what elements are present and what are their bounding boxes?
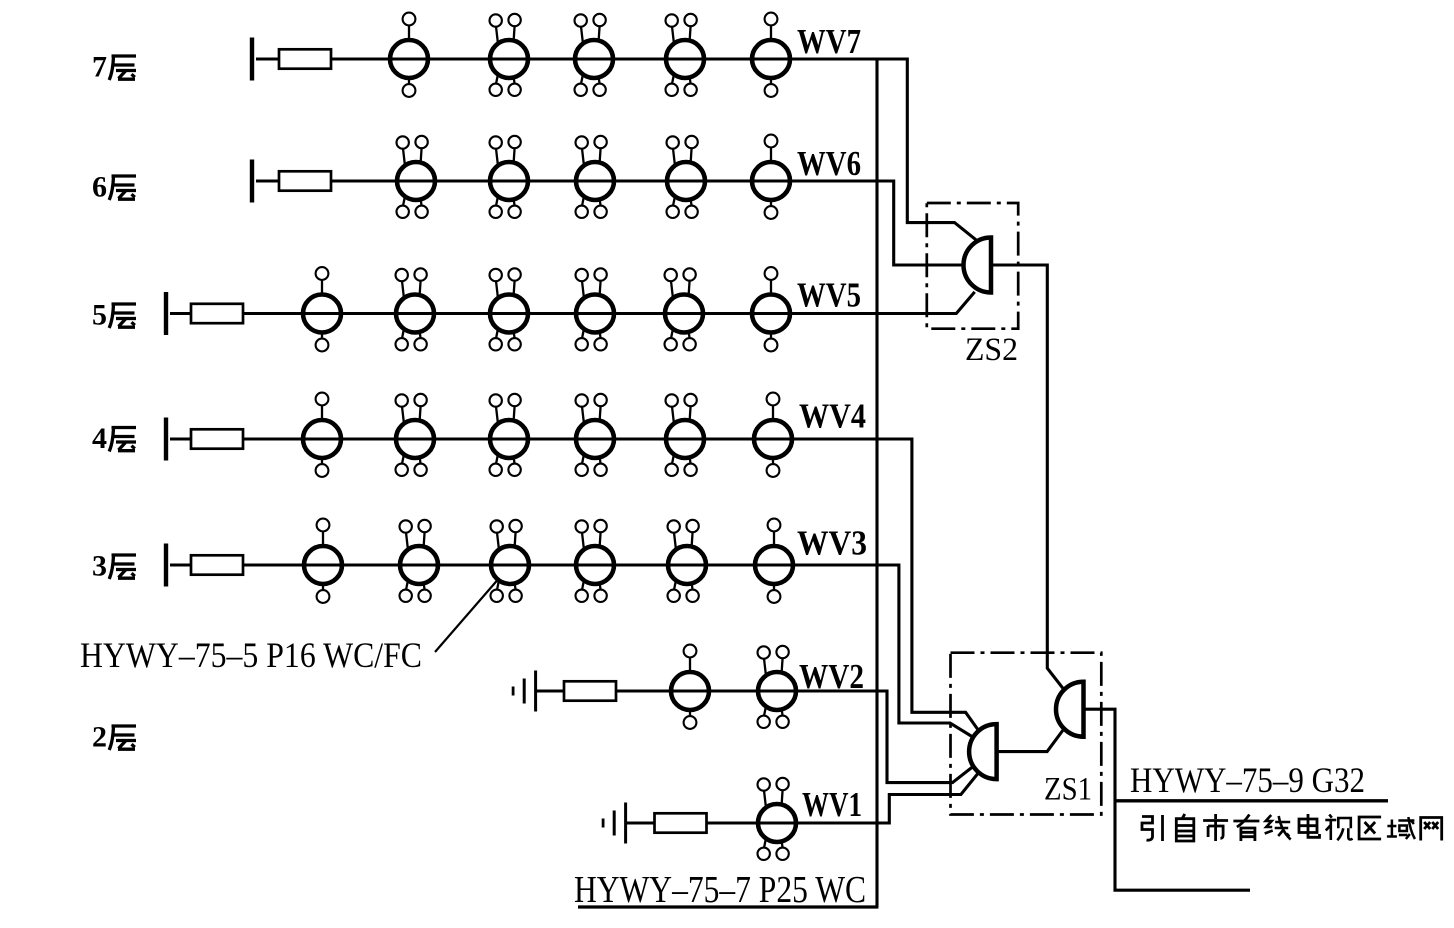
label incoming network note [1142, 814, 1442, 841]
tap WV6-3 [576, 136, 615, 218]
tap WV3-1 [304, 519, 342, 603]
wire F5 terminator to resistor [170, 312, 191, 315]
label floor 2 ceng [109, 726, 136, 750]
tap WV7-4 [666, 14, 705, 96]
splitter ZS2 [963, 238, 991, 293]
wire F6 line WV6 to ZS2 [330, 181, 963, 265]
tap WV3-5 [668, 520, 707, 602]
splitter box ZS1 [951, 653, 1102, 815]
tap WV6-1 [397, 136, 436, 218]
tap WV6-5 [752, 135, 790, 219]
splitter ZS1 left [969, 724, 997, 779]
tap WV3-2 [400, 520, 439, 602]
wire F6 terminator to resistor [256, 179, 279, 182]
tap WV7-2 [490, 14, 529, 96]
svg-text:WV1: WV1 [802, 785, 862, 824]
svg-text:WV6: WV6 [797, 144, 861, 183]
tap WV4-1 [303, 393, 341, 477]
svg-text:HYWY–75–9 G32: HYWY–75–9 G32 [1130, 760, 1365, 800]
svg-text:5: 5 [92, 299, 107, 332]
tap WV5-6 [752, 267, 790, 351]
wire feeder label line HYWY-75-9 G32 [1115, 799, 1388, 802]
label floor 6 ceng [109, 176, 136, 200]
tap WV7-3 [575, 14, 614, 96]
wire ZS1 splitter link [997, 729, 1065, 752]
svg-text:7: 7 [92, 51, 107, 84]
svg-text:WV4: WV4 [799, 397, 866, 436]
svg-text:6: 6 [92, 171, 107, 204]
label floor 7 ceng [109, 56, 136, 80]
terminator F6 [250, 160, 254, 203]
tap WV4-4 [576, 394, 615, 476]
wire F7 terminator to resistor [256, 57, 279, 60]
terminator F7 [250, 38, 254, 81]
load resistor F7 [279, 49, 331, 68]
wire riser trunk HYWY-75-7 [875, 59, 878, 907]
wire F4 line WV4 to ZS1 [242, 439, 980, 733]
leader line HYWY-75-5 to tap [435, 580, 498, 652]
tap WV1-1 [758, 778, 797, 860]
splitter box ZS2 [927, 203, 1018, 329]
wire F3 line WV3 to ZS1 [242, 565, 975, 739]
tap WV5-3 [490, 268, 529, 350]
wire ZS1 input feeder from network [1084, 709, 1251, 890]
wire F4 terminator to resistor [170, 437, 191, 440]
load resistor F3 [191, 555, 243, 574]
tap WV2-2 [758, 646, 797, 728]
svg-text:2: 2 [92, 721, 107, 754]
wire WV2 ground to resistor [536, 689, 564, 692]
splitter ZS1 right [1056, 682, 1084, 737]
label floor 5 ceng [109, 304, 136, 328]
svg-text:WV7: WV7 [797, 22, 861, 61]
wire riser label underline HYWY-75-7 [578, 905, 878, 908]
wire WV1 line to ZS1 [705, 772, 980, 824]
label floor 4 ceng [109, 428, 136, 452]
ground WV2 [512, 671, 537, 712]
wire F5 line WV5 to ZS2 [242, 292, 975, 314]
load resistor F5 [191, 304, 243, 323]
tap WV4-5 [666, 394, 705, 476]
tap WV7-1 [390, 13, 428, 97]
svg-text:3: 3 [92, 550, 107, 583]
tap WV6-4 [667, 136, 706, 218]
tap WV5-4 [576, 268, 615, 350]
svg-text:WV3: WV3 [797, 524, 867, 563]
wire F7 line WV7 to ZS2 [330, 59, 977, 240]
wire WV1 ground to resistor [626, 821, 655, 824]
load resistor WV2 [564, 681, 616, 700]
tap WV6-2 [490, 136, 529, 218]
ground WV1 [602, 803, 627, 844]
tap WV5-1 [303, 267, 341, 351]
tap WV4-3 [490, 394, 529, 476]
svg-text:ZS2: ZS2 [965, 332, 1018, 368]
svg-text:4: 4 [92, 422, 107, 455]
terminator F3 [164, 544, 168, 587]
tap WV3-3 [491, 520, 530, 602]
load resistor F4 [191, 429, 243, 448]
tap WV3-6 [755, 519, 793, 603]
load resistor WV1 [655, 813, 707, 832]
tap WV5-2 [396, 268, 435, 350]
tap WV3-4 [576, 520, 615, 602]
tap WV5-5 [665, 268, 704, 350]
svg-text:WV5: WV5 [797, 276, 861, 315]
svg-text:HYWY–75–7 P25 WC: HYWY–75–7 P25 WC [574, 869, 866, 911]
tap WV4-2 [396, 394, 435, 476]
wire ZS2 output to ZS1 [991, 265, 1064, 690]
wire F3 terminator to resistor [170, 563, 191, 566]
svg-text:ZS1: ZS1 [1044, 772, 1092, 808]
load resistor F6 [279, 171, 331, 190]
wire WV2 line to ZS1 [615, 691, 975, 783]
svg-text:WV2: WV2 [799, 657, 864, 696]
tap WV4-6 [754, 393, 792, 477]
terminator F4 [164, 418, 168, 461]
label floor 3 ceng [109, 555, 136, 579]
terminator F5 [164, 292, 168, 335]
tap WV2-1 [671, 645, 709, 729]
svg-text:HYWY–75–5 P16 WC/FC: HYWY–75–5 P16 WC/FC [80, 635, 422, 675]
tap WV7-5 [752, 13, 790, 97]
